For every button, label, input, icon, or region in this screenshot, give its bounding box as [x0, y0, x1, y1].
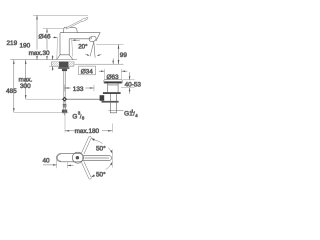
- hose fitting neck: [63, 107, 65, 109]
- faucet body: [60, 33, 69, 55]
- washer below deck: [58, 67, 69, 69]
- svg-text:99: 99: [120, 52, 128, 59]
- svg-text:max.180: max.180: [75, 128, 100, 135]
- svg-text:485: 485: [6, 88, 17, 95]
- deck slab hatched left: [52, 62, 60, 66]
- svg-text:20°: 20°: [78, 43, 88, 50]
- top view lever root line: [82, 156, 84, 161]
- spout outlet aerator: [88, 35, 97, 42]
- svg-text:8: 8: [82, 116, 85, 121]
- pop-up rod clamp: [100, 95, 105, 101]
- angle 20 degree slant line: [90, 42, 94, 57]
- label max.30: [28, 50, 48, 56]
- pop-up rod joint: [62, 97, 67, 102]
- svg-text:Ø34: Ø34: [81, 68, 94, 75]
- dimension 99 line: [118, 45, 120, 65]
- cartridge cap: [63, 27, 77, 33]
- deck slab hatched right: [68, 62, 74, 66]
- svg-text:max.30: max.30: [29, 50, 50, 57]
- svg-text:133: 133: [73, 86, 84, 93]
- svg-text:G: G: [72, 113, 77, 120]
- label 50 upper: [95, 144, 108, 152]
- swing arc lower: [92, 163, 112, 177]
- drain flange: [104, 80, 122, 84]
- dimension Ø63: [99, 69, 128, 79]
- svg-text:219: 219: [7, 40, 18, 47]
- dimension 219 line: [36, 15, 38, 59]
- label 40-53: [124, 81, 143, 87]
- pop-up rod horizontal: [63, 98, 100, 100]
- dimension max180: [65, 101, 112, 133]
- swing arc upper arrow at ghost: [91, 138, 95, 141]
- svg-text:40: 40: [43, 157, 51, 164]
- aerator inner dot: [90, 37, 92, 39]
- deck bottom line: [49, 65, 52, 67]
- lever tip extension line: [111, 150, 113, 168]
- svg-text:40-53: 40-53: [125, 82, 142, 89]
- drain friction ring dark: [103, 92, 121, 94]
- label Ø34 boxed: [79, 66, 96, 75]
- max.30 dimension arrows: [52, 55, 54, 70]
- top view center dot: [76, 156, 79, 159]
- dimension max300 line: [25, 60, 62, 99]
- extension line outlet level (99 ref): [96, 44, 123, 46]
- lever tip: [81, 17, 88, 21]
- svg-text:50°: 50°: [96, 144, 106, 152]
- top view lever slot lines: [85, 157, 109, 159]
- dimension 40 (top view): [43, 160, 74, 168]
- top view lever: [83, 156, 112, 161]
- label max180: [75, 127, 102, 134]
- Ø46 left extension line: [56, 37, 59, 59]
- dimension 190 line: [46, 29, 48, 60]
- dimension 133 text: [71, 85, 86, 92]
- hose end stub: [64, 113, 66, 115]
- lever swing ghost lower: [82, 161, 92, 179]
- dimension 485 line: [13, 60, 69, 113]
- spout: [60, 33, 100, 41]
- deck top line: [11, 59, 78, 61]
- hose nuts at shank: [62, 69, 67, 71]
- svg-text:Ø46: Ø46: [39, 33, 52, 40]
- label 50 lower: [95, 170, 108, 178]
- drain axis tick arrow: [112, 59, 114, 65]
- swing arc lower arrow at ghost: [91, 174, 95, 177]
- dimension 133: [65, 85, 95, 92]
- label Ø46: [38, 33, 52, 39]
- Ø46 right arrow: [72, 39, 80, 41]
- svg-text:300: 300: [20, 83, 31, 90]
- pill inner end arc: [57, 154, 60, 161]
- svg-text:50°: 50°: [96, 170, 106, 178]
- lever swing ghost upper: [82, 136, 92, 154]
- swing arc upper arrow at line: [110, 150, 112, 154]
- swing arc upper: [92, 139, 112, 153]
- deck slab top line: [52, 61, 75, 63]
- extension line cartridge top (190 ref): [43, 28, 64, 30]
- top view body circle: [72, 152, 83, 163]
- lever handle: [66, 20, 82, 29]
- supply hoses below deck: [64, 70, 65, 104]
- pop-up lever bar: [102, 101, 119, 103]
- drain flange dark lip: [104, 81, 121, 83]
- Ø46 left arrow: [53, 37, 58, 39]
- top view base pill: [57, 154, 84, 162]
- deck line at drain: [75, 63, 124, 65]
- angle 20 arc arrows: [85, 54, 101, 56]
- swing arc lower arrow at line: [110, 162, 112, 166]
- svg-text:190: 190: [20, 42, 31, 49]
- dimension 40-53: [121, 72, 135, 94]
- hose fitting nut G3/8: [62, 110, 67, 114]
- Ø46 right extension line: [72, 39, 73, 56]
- drain tailpipe: [110, 94, 116, 113]
- escutcheon base: [57, 55, 73, 60]
- hose fitting collar: [63, 104, 67, 107]
- svg-text:Ø63: Ø63: [107, 74, 120, 81]
- drain neck: [108, 83, 119, 92]
- mounting nut dark: [59, 62, 68, 68]
- angle 20 degree vertical line: [94, 42, 95, 58]
- deck slab outline: [52, 62, 75, 67]
- G1 1/4 leader: [109, 110, 124, 112]
- extension line top (lever top, 219 ref): [33, 14, 88, 16]
- svg-text:4: 4: [135, 113, 138, 118]
